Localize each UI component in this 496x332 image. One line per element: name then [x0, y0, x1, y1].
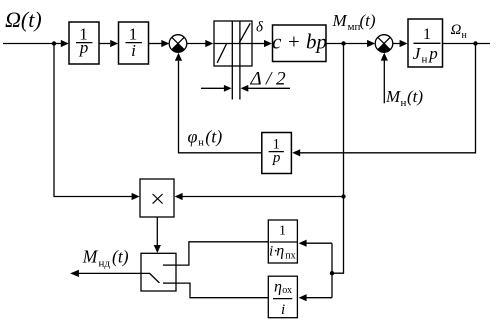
svg-text:Ω(t): Ω(t): [5, 7, 42, 32]
wire output Omega_n: [443, 43, 491, 45]
node A junction dot on input: [52, 41, 56, 45]
svg-text:M: M: [82, 247, 99, 267]
wire summing junction 1 to backlash: [187, 43, 206, 45]
svg-text:i: i: [131, 41, 136, 60]
svg-text:(t): (t): [407, 87, 423, 106]
node label Mn(t): [385, 87, 423, 109]
svg-text:p: p: [79, 38, 89, 57]
wire Mmp tap down and into multiplier right: [332, 44, 344, 274]
svg-text:ох: ох: [282, 285, 292, 296]
wire 1/i to summing junction 1: [149, 43, 162, 45]
node label Mmp(t): [332, 11, 376, 33]
wire upper eta block output to switch: [176, 242, 268, 265]
block 1/p (position integrator, feedback): [262, 133, 292, 174]
wire feedback Omega_n down to integrator: [300, 44, 476, 153]
wire backlash to c+bp: [264, 40, 272, 47]
svg-text:пх: пх: [285, 250, 295, 261]
multiplier block x: [140, 179, 174, 217]
svg-text:p: p: [272, 150, 281, 166]
wire lower eta block output to switch: [176, 283, 268, 298]
svg-text:c + bp: c + bp: [272, 30, 327, 54]
node Omega_n junction dot: [473, 41, 477, 45]
wire feed into lower eta block: [307, 297, 333, 299]
svg-text:Δ / 2: Δ / 2: [250, 69, 287, 90]
svg-text:η: η: [276, 242, 284, 259]
node label Omega_n: [451, 22, 468, 41]
summing junction 1 (comparator circle with X): [169, 35, 187, 53]
block 1/(Jn p) (load inertia): [408, 19, 443, 67]
node label delta: [256, 20, 264, 36]
nonlinearity block backlash: [214, 21, 252, 66]
wire multiplier output down to switch: [156, 217, 158, 245]
svg-text:i: i: [281, 302, 285, 318]
wire input tap down to multiplier: [54, 44, 132, 197]
block 1/p (integrator): [69, 22, 99, 64]
block c+bp (stiffness and damping): [273, 25, 327, 62]
svg-text:M: M: [332, 11, 348, 30]
wire Mn(t) input into summing junction 2: [383, 61, 385, 104]
switch block (sign selector): [141, 253, 176, 291]
wire output Mnd(t): [79, 272, 141, 274]
wire 1/p to 1/i: [99, 43, 110, 45]
label delta/2: [250, 69, 287, 90]
svg-text:(t): (t): [112, 247, 129, 267]
block 1/i (gear ratio): [119, 22, 149, 64]
svg-text:1: 1: [423, 26, 431, 43]
node Mmp junction dot: [341, 41, 345, 45]
wire vertical connector feeding both eta blocks: [331, 243, 333, 298]
svg-text:Ω: Ω: [451, 22, 462, 38]
wire c+bp to summing junction 2: [326, 43, 368, 45]
node label phi_n(t): [188, 126, 223, 148]
svg-text:η: η: [274, 279, 282, 296]
svg-text:(t): (t): [205, 126, 222, 147]
svg-text:M: M: [385, 87, 401, 106]
wire arrowhead into 1/p: [61, 40, 69, 47]
svg-text:нд: нд: [99, 258, 111, 270]
svg-text:1: 1: [279, 224, 286, 239]
wire feed into upper eta block: [307, 242, 333, 244]
svg-text:(t): (t): [360, 11, 376, 30]
node label Mnd(t): [82, 247, 129, 270]
wire input to 1/p: [3, 43, 61, 45]
svg-text:н: н: [462, 30, 468, 41]
block eta_ox/i reverse efficiency: [268, 276, 297, 318]
svg-text:φ: φ: [188, 126, 198, 146]
wire integrator output to summing junction 1: [179, 61, 262, 153]
svg-text:н: н: [422, 54, 428, 66]
block 1/(i eta_px) forward efficiency: [268, 220, 297, 263]
svg-text:н: н: [401, 97, 407, 109]
node label Omega(t) input: [5, 7, 42, 32]
svg-text:н: н: [198, 137, 204, 148]
dimension arrows delta/2: [201, 87, 224, 89]
summing junction 2 (comparator circle with X): [375, 35, 393, 53]
svg-text:p: p: [428, 44, 438, 63]
wire summing junction 2 to 1/Jnp: [393, 43, 400, 45]
svg-text:δ: δ: [256, 20, 264, 36]
